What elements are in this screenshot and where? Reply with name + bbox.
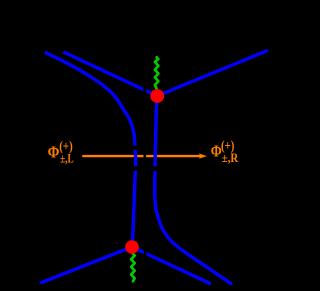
svg-text:±,L: ±,L	[60, 151, 74, 165]
svg-text:±,R: ±,R	[222, 151, 239, 165]
svg-text:Φ: Φ	[48, 142, 60, 161]
